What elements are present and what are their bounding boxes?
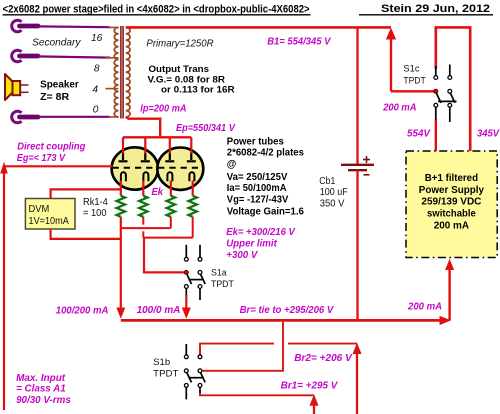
wire S1b pole to bus riser <box>202 322 283 371</box>
capacitor Cb1 bottom lead <box>356 170 358 320</box>
svg-text:0: 0 <box>93 105 99 116</box>
tube V1 cathodes <box>121 172 148 181</box>
wire S1c pole feed horizontal <box>391 90 435 92</box>
transformer T1 secondary coil <box>114 27 118 117</box>
svg-text:200 mA: 200 mA <box>407 301 442 312</box>
svg-text:Br2= +206 V: Br2= +206 V <box>294 353 353 364</box>
power supply box B+1 <box>406 151 497 258</box>
svg-text:= Class A1: = Class A1 <box>16 384 66 395</box>
svg-text:350 V: 350 V <box>320 198 345 209</box>
wire bus up to PS + arrow (200 mA return) <box>448 264 450 320</box>
switch S1a <box>184 245 205 300</box>
svg-text:S1a: S1a <box>211 267 227 277</box>
svg-text:S1b: S1b <box>153 357 170 367</box>
svg-text:100/0 mA: 100/0 mA <box>137 305 181 316</box>
svg-text:Ek: Ek <box>152 187 165 198</box>
svg-text:Cb1: Cb1 <box>319 176 335 187</box>
wire DVM top loop <box>51 189 121 198</box>
svg-text:B1= 554/345 V: B1= 554/345 V <box>267 36 331 47</box>
wire tie to S1a pole <box>144 238 185 273</box>
tube V1 envelope <box>112 147 158 189</box>
arrow bus right <box>440 316 452 325</box>
wire primary bottom to plate rail <box>126 117 161 137</box>
svg-text:Br1= +295 V: Br1= +295 V <box>281 381 339 392</box>
svg-text:switchable: switchable <box>427 209 476 220</box>
svg-text:Upper limit: Upper limit <box>226 239 277 250</box>
svg-text:Power Supply: Power Supply <box>419 185 485 196</box>
svg-text:554V: 554V <box>407 129 431 140</box>
tube V2 plates <box>165 153 196 162</box>
svg-text:Ep=550/341 V: Ep=550/341 V <box>176 123 236 134</box>
svg-text:TPDT: TPDT <box>403 76 426 86</box>
capacitor plus mark <box>363 156 370 163</box>
svg-text:Power tubes: Power tubes <box>227 137 285 148</box>
wire Rk2-Rk4 tie <box>143 237 192 239</box>
wire J3 to tap0 <box>36 116 110 118</box>
wire Br1 vertical + arrow <box>313 400 315 414</box>
svg-text:Voltage Gain=1.6: Voltage Gain=1.6 <box>227 207 305 218</box>
svg-text:DVM: DVM <box>29 204 50 215</box>
svg-text:Direct coupling: Direct coupling <box>17 142 86 153</box>
header date right <box>359 3 493 15</box>
svg-text:Speaker: Speaker <box>40 80 79 91</box>
svg-text:8: 8 <box>94 64 100 75</box>
svg-text:Rk1-4: Rk1-4 <box>83 197 108 208</box>
wire grid input line <box>4 165 113 167</box>
wire cathode leads <box>120 181 122 196</box>
wire Rk3 stub <box>170 217 172 228</box>
svg-text:100 uF: 100 uF <box>320 187 348 198</box>
transformer T1 secondary tap stubs <box>108 26 119 28</box>
svg-text:90/30 V-rms: 90/30 V-rms <box>16 395 71 406</box>
tube V1 grid (dashed) <box>113 167 158 169</box>
svg-text:Secondary: Secondary <box>32 37 81 48</box>
tube V2 cathodes <box>167 172 194 181</box>
resistor Rk4 <box>189 196 197 217</box>
arrow down to bus (100/200 mA) <box>116 308 125 319</box>
connector J2 (8 tap) <box>12 50 38 62</box>
svg-text:4: 4 <box>92 84 98 95</box>
header title left <box>3 3 311 15</box>
wire Rk4 stub <box>192 217 194 238</box>
speaker LS1 <box>5 74 29 100</box>
wire Rk1-Rk3 tie <box>121 227 171 229</box>
resistor Rk3 <box>167 196 175 217</box>
tube V2 envelope <box>157 148 203 190</box>
DVM box <box>25 199 75 230</box>
resistor Rk1 <box>117 196 125 217</box>
wire S1c bottom to PS box (554V) <box>435 119 437 151</box>
svg-text:B+1 filtered: B+1 filtered <box>425 173 478 184</box>
wire S1b top throw to Br2 (with crossover gap) <box>200 344 274 354</box>
wire S1a pole to bus + arrow <box>185 295 187 312</box>
svg-text:+300 V: +300 V <box>226 250 258 261</box>
switch S1c <box>434 65 457 123</box>
svg-text:Eg=< 173 V: Eg=< 173 V <box>17 153 66 164</box>
capacitor Cb1 plates <box>341 164 374 166</box>
connector J3 (0 tap) <box>12 111 38 123</box>
wire arrow from S1c pole up to B1 <box>390 33 392 91</box>
svg-text:2*6082-4/2 plates: 2*6082-4/2 plates <box>227 148 305 159</box>
wire input rail left edge <box>3 166 5 410</box>
svg-text:Stein 29 Jun, 2012: Stein 29 Jun, 2012 <box>381 3 490 15</box>
tube V2 grid (dashed) <box>158 167 203 169</box>
wire J2 to tap8 <box>36 56 110 57</box>
capacitor Cb1 top lead <box>356 27 358 164</box>
svg-text:200 mA: 200 mA <box>382 103 416 114</box>
svg-text:Z= 8R: Z= 8R <box>40 92 70 103</box>
capacitor minus mark <box>364 174 370 176</box>
svg-text:16: 16 <box>91 33 103 44</box>
svg-text:TPDT: TPDT <box>211 279 234 289</box>
bus Br <box>121 319 444 322</box>
svg-text:S1c: S1c <box>403 64 420 74</box>
wire plate rail <box>123 136 191 138</box>
wire Br2 vertical + arrow <box>356 348 358 414</box>
svg-text:Max. Input: Max. Input <box>16 373 66 384</box>
switch S1b <box>184 344 205 399</box>
resistor Rk2 <box>139 196 147 217</box>
svg-text:259/139 VDC: 259/139 VDC <box>421 197 482 208</box>
svg-text:or 0.113 for 16R: or 0.113 for 16R <box>161 84 235 95</box>
svg-text:200 mA: 200 mA <box>434 221 470 232</box>
wire S1b bottom throw to Br1 <box>200 393 314 395</box>
svg-text:Vg= -127/-43V: Vg= -127/-43V <box>227 195 289 206</box>
svg-text:Primary=1250R: Primary=1250R <box>146 39 214 50</box>
svg-text:345V: 345V <box>477 129 500 140</box>
svg-text:TPDT: TPDT <box>153 368 179 378</box>
tube V1 plates <box>119 153 150 162</box>
svg-text:1V=10mA: 1V=10mA <box>29 216 69 227</box>
svg-text:Ia= 50/100mA: Ia= 50/100mA <box>227 183 287 194</box>
svg-text:100/200 mA: 100/200 mA <box>56 305 109 316</box>
svg-text:Ip=200 mA: Ip=200 mA <box>140 103 186 114</box>
svg-text:<2x6082 power stage>filed in <: <2x6082 power stage>filed in <4x6082> in… <box>3 3 310 15</box>
svg-text:= 100: = 100 <box>83 208 107 219</box>
wire Rk1 bottom drop to bus <box>120 217 122 312</box>
wire DVM bottom loop <box>51 229 121 239</box>
wire J1 to tap16 <box>36 25 110 28</box>
transformer T1 core <box>120 26 122 119</box>
connector J1 (16 tap) <box>12 20 38 32</box>
wire hat segment over S1c <box>436 27 470 151</box>
wire Rk2 stub (with crossover gap) <box>142 217 144 225</box>
arrow input up <box>0 162 8 174</box>
wire plate leads <box>122 137 124 153</box>
svg-text:Br= tie to +295/206 V: Br= tie to +295/206 V <box>240 305 335 316</box>
wire B1 top line <box>126 26 391 29</box>
svg-text:Ek= +300/216 V: Ek= +300/216 V <box>226 227 296 238</box>
transformer T1 primary coil <box>126 27 130 117</box>
svg-text:Va= 250/125V: Va= 250/125V <box>227 172 288 183</box>
svg-text:@: @ <box>227 159 237 170</box>
